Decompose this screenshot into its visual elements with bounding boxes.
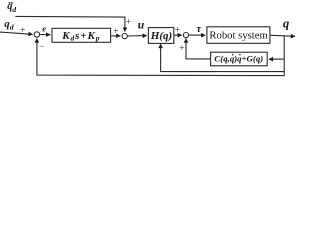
- svg-text:+: +: [175, 26, 180, 36]
- wire: sum2 output u to H(q) block: [127, 35, 146, 37]
- block: Kd s + Kp PD controller: [52, 28, 111, 42]
- overdot of first qdot in C block label: [232, 54, 234, 56]
- svg-text:u: u: [138, 20, 145, 32]
- svg-text:d: d: [10, 22, 14, 31]
- svg-text:τ: τ: [196, 23, 202, 35]
- svg-text:H(q): H(q): [150, 30, 172, 42]
- svg-text:−: −: [39, 41, 44, 51]
- svg-text:C(q,q)q+G(q): C(q,q)q+G(q): [214, 53, 263, 63]
- svg-text:Kds+Kp: Kds+Kp: [61, 30, 100, 43]
- wire: qd_d input into sum1: [0, 32, 33, 34]
- summing junction S3: [183, 33, 188, 38]
- svg-text:Robot system: Robot system: [209, 29, 268, 41]
- wire: outer bottom rail feedback into sum1: [37, 39, 284, 76]
- wire: qdd_d feedforward top rail into sum2: [16, 16, 125, 31]
- block: Robot system: [207, 27, 270, 44]
- wire: Kds+Kp output to sum2: [111, 35, 121, 37]
- wire: H(q) output to sum3: [174, 34, 182, 36]
- svg-text:+: +: [113, 27, 118, 37]
- wire: Robot system output q: [270, 35, 295, 36]
- svg-text:+: +: [179, 44, 184, 54]
- svg-text:+: +: [126, 17, 131, 27]
- wire: branch into C block right side: [269, 58, 284, 60]
- svg-text:q: q: [283, 17, 289, 31]
- block: C(q,qdot)qdot + G(q) compensation: [211, 52, 268, 66]
- wire: sum1 output e to Kds+Kp block: [40, 34, 51, 36]
- wire: sum3 output tau to Robot system: [189, 34, 206, 36]
- svg-text:+: +: [20, 26, 25, 36]
- svg-text:q: q: [4, 19, 9, 30]
- summing junction S1: [34, 32, 39, 37]
- wire: C block output left then up into sum3: [186, 39, 211, 59]
- wire: inner bottom rail feedback to H(q) bottom input: [161, 44, 285, 72]
- svg-text:d: d: [12, 5, 16, 14]
- svg-text:e: e: [42, 23, 46, 33]
- summing junction S2: [122, 34, 127, 39]
- overdot of second qdot in C block label: [239, 54, 241, 56]
- wire: output branch down at x=284: [283, 36, 285, 76]
- block: H(q) inertia matrix: [148, 28, 173, 44]
